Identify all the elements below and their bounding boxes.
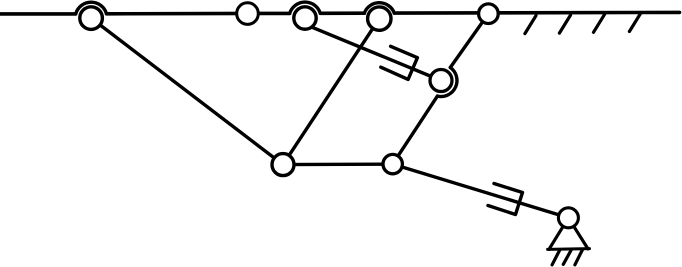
ground hatch tick 4 bbox=[629, 14, 640, 32]
link E to wrap arc bbox=[450, 14, 488, 68]
pin C bbox=[294, 7, 316, 29]
link A-F bbox=[91, 18, 283, 165]
support base line bbox=[548, 247, 590, 251]
pin F bbox=[272, 154, 294, 176]
jump arc over pin D bbox=[364, 3, 394, 13]
slider bracket 1 bbox=[381, 46, 418, 79]
rod C-H through slider bbox=[311, 27, 441, 81]
pin A bbox=[80, 7, 103, 30]
wire beam segment A-to-C bbox=[107, 12, 290, 16]
pin G bbox=[383, 154, 402, 173]
support hatch tick 1 bbox=[552, 250, 560, 265]
pin D bbox=[368, 7, 391, 30]
support hatch tick 2 bbox=[563, 250, 571, 265]
slider bracket 2 bbox=[488, 184, 523, 215]
jump arc over pin C bbox=[290, 2, 321, 13]
pin H bbox=[430, 70, 452, 92]
pin I bbox=[558, 208, 578, 228]
link D-F bbox=[283, 19, 379, 165]
pin B bbox=[237, 3, 259, 25]
ground hatch tick 2 bbox=[559, 15, 570, 33]
jump arc over pin A bbox=[76, 2, 107, 14]
wire beam segment left bbox=[0, 12, 76, 16]
support leg left at I bbox=[549, 218, 568, 250]
ground hatch tick 1 bbox=[525, 16, 536, 34]
rod G-I through slider bbox=[393, 164, 569, 218]
link wrap arc to G bbox=[393, 96, 438, 164]
pin E bbox=[479, 4, 499, 24]
wire beam segment D-to-right bbox=[394, 11, 679, 15]
wrap arc around pin H bbox=[437, 68, 457, 97]
support leg right at I bbox=[568, 218, 588, 249]
wire beam segment C-to-D bbox=[320, 11, 364, 15]
link F-G bbox=[283, 162, 393, 166]
support hatch tick 3 bbox=[575, 250, 583, 265]
ground hatch tick 3 bbox=[594, 14, 605, 32]
